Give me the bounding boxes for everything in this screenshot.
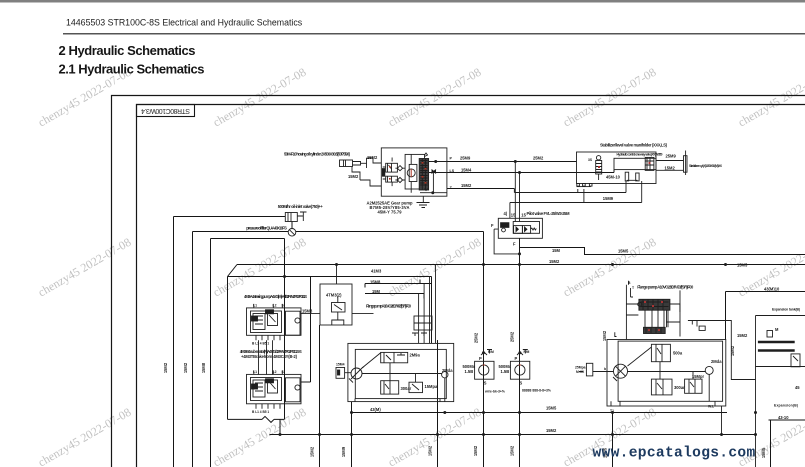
svg-text:b: b [604, 367, 606, 371]
svg-text:15M2: 15M2 [549, 259, 560, 264]
svg-text:45M-10: 45M-10 [606, 175, 621, 180]
svg-text:2M9a: 2M9a [410, 353, 421, 358]
svg-text:15M2: 15M2 [461, 183, 472, 188]
svg-text:L2: L2 [273, 303, 277, 307]
svg-text:50M-F10 hosing oil cylinder 2X: 50M-F10 hosing oil cylinder 2X500X30.5(5… [284, 152, 351, 157]
svg-text:F/M: F/M [524, 350, 530, 354]
svg-text:P: P [515, 356, 518, 361]
svg-text:15M2: 15M2 [730, 345, 735, 356]
svg-text:F/M: F/M [488, 350, 494, 354]
svg-text:15M2: 15M2 [665, 165, 676, 170]
svg-text:14465503 STR100C-8S Electrical: 14465503 STR100C-8S Electrical and Hydra… [66, 18, 303, 28]
svg-text:B L1 4 B5 1: B L1 4 B5 1 [252, 342, 269, 346]
svg-text:45: 45 [795, 385, 800, 390]
svg-text:15M4: 15M4 [336, 362, 345, 366]
svg-text:2.1 Hydraulic Schematics: 2.1 Hydraulic Schematics [59, 62, 205, 77]
svg-text:B L1 4 B5 1: B L1 4 B5 1 [252, 410, 269, 414]
svg-text:4TM3(2): 4TM3(2) [326, 293, 342, 298]
svg-text:S: S [484, 381, 487, 386]
svg-text:25Mpa: 25Mpa [575, 366, 586, 370]
svg-text:Flange pump A10VO28DR-53/(SR)F: Flange pump A10VO28DR-53/(SR)F00 [366, 303, 412, 308]
svg-text:STR80C100W3.4: STR80C100W3.4 [141, 107, 190, 114]
svg-text:wire-bk-3+%: wire-bk-3+% [484, 390, 505, 394]
svg-text:pressure oil filter QU-A40X10F: pressure oil filter QU-A40X10FS [246, 225, 287, 230]
svg-text:15M2: 15M2 [510, 445, 515, 456]
svg-text:L2: L2 [273, 370, 277, 374]
svg-text:T: T [632, 286, 635, 290]
svg-text:3S: 3S [588, 158, 593, 162]
svg-text:500a: 500a [673, 351, 683, 356]
svg-text:+4M3TBrakehorn 4M3C4Y(B-2): +4M3TBrakehorn 4M3C4Y(B-2) [241, 354, 298, 359]
svg-text:15M2: 15M2 [602, 330, 607, 341]
svg-text:Pilot valve FVL-25/W3-25M: Pilot valve FVL-25/W3-25M [527, 211, 571, 216]
svg-text:15M8: 15M8 [370, 280, 381, 285]
svg-text:S: S [520, 381, 523, 386]
svg-text:1.5B: 1.5B [501, 369, 510, 374]
svg-text:25M9: 25M9 [460, 156, 471, 161]
svg-text:15M5: 15M5 [737, 263, 748, 268]
svg-text:2Mda: 2Mda [711, 359, 722, 364]
svg-text:www.epcatalogs.com: www.epcatalogs.com [593, 446, 756, 462]
svg-text:P: P [450, 156, 453, 160]
svg-text:Stabilizer/level valve manifol: Stabilizer/level valve manifolder (XXX,L… [600, 143, 668, 148]
svg-text:15M2: 15M2 [310, 446, 315, 457]
svg-text:15M2: 15M2 [737, 333, 748, 338]
svg-text:15: 15 [511, 213, 516, 218]
svg-text:chenzy45 2022-07-08: chenzy45 2022-07-08 [386, 65, 484, 130]
svg-text:L1: L1 [253, 370, 257, 374]
svg-text:15M: 15M [552, 248, 561, 253]
svg-text:Expansion tank(B): Expansion tank(B) [772, 308, 800, 312]
svg-text:15M2: 15M2 [183, 362, 188, 373]
svg-text:chenzy45 2022-07-08: chenzy45 2022-07-08 [386, 405, 484, 467]
svg-text:chenzy45 2022-07-08: chenzy45 2022-07-08 [211, 65, 309, 130]
svg-text:15M2: 15M2 [367, 155, 378, 160]
svg-text:1.5B: 1.5B [465, 369, 474, 374]
svg-text:T1: T1 [610, 409, 614, 413]
svg-text:chenzy45 2022-07-08: chenzy45 2022-07-08 [561, 235, 659, 300]
svg-text:M.XX: M.XX [576, 370, 585, 374]
svg-text:25M2: 25M2 [510, 331, 515, 342]
svg-text:15M9: 15M9 [603, 196, 614, 201]
svg-text:500M/hr oil-inlet valve(750)++: 500M/hr oil-inlet valve(750)++ [278, 204, 324, 209]
svg-text:chenzy45 2022-07-08: chenzy45 2022-07-08 [736, 65, 805, 130]
svg-text:Stabilizer cyl.(X)150X30(M)XX: Stabilizer cyl.(X)150X30(M)XX [689, 164, 723, 168]
svg-text:15M2: 15M2 [473, 445, 478, 456]
svg-text:L1: L1 [253, 303, 257, 307]
svg-text:15Mpa: 15Mpa [425, 384, 438, 389]
svg-text:45M-Y 75.79: 45M-Y 75.79 [378, 210, 403, 215]
svg-text:300ar: 300ar [401, 386, 412, 391]
svg-text:43(M)10: 43(M)10 [764, 287, 780, 292]
svg-text:88888 888-8-8+3%: 88888 888-8-8+3% [522, 389, 551, 393]
svg-text:25M2: 25M2 [533, 156, 544, 161]
svg-text:43(M): 43(M) [370, 407, 381, 412]
svg-text:15M2: 15M2 [546, 428, 557, 433]
svg-text:15M8: 15M8 [201, 362, 206, 373]
svg-text:15M9: 15M9 [341, 446, 346, 457]
svg-text:2 Hydraulic Schematics: 2 Hydraulic Schematics [59, 43, 196, 58]
svg-text:25M2: 25M2 [474, 332, 479, 343]
svg-text:M: M [775, 327, 779, 332]
svg-text:2Mda: 2Mda [442, 368, 453, 373]
svg-text:25M9: 25M9 [666, 154, 677, 159]
svg-text:chenzy45 2022-07-08: chenzy45 2022-07-08 [386, 235, 484, 300]
svg-text:F: F [513, 242, 516, 247]
svg-text:15M4: 15M4 [461, 168, 472, 173]
svg-text:15M2: 15M2 [348, 174, 359, 179]
svg-text:15M2: 15M2 [163, 362, 168, 373]
svg-text:15M5: 15M5 [546, 406, 557, 411]
svg-text:15M5: 15M5 [618, 249, 629, 254]
svg-text:15M: 15M [372, 289, 381, 294]
svg-text:Expansion(B): Expansion(B) [774, 404, 798, 408]
svg-text:Flange pump A10VO28DR-53/(SR)F: Flange pump A10VO28DR-53/(SR)F00 [637, 284, 694, 289]
svg-text:F: F [491, 223, 494, 228]
svg-text:B: B [628, 281, 631, 285]
svg-text:LS: LS [450, 169, 455, 173]
svg-text:300ar: 300ar [674, 385, 685, 390]
svg-text:15M8: 15M8 [302, 309, 313, 314]
svg-text:chenzy45 2022-07-08: chenzy45 2022-07-08 [36, 405, 134, 467]
svg-text:chenzy45 2022-07-08: chenzy45 2022-07-08 [211, 405, 309, 467]
svg-text:W.L: W.L [708, 405, 714, 409]
svg-text:chenzy45 2022-07-08: chenzy45 2022-07-08 [36, 235, 134, 300]
svg-text:chenzy45 2022-07-08: chenzy45 2022-07-08 [211, 235, 309, 300]
svg-text:15M2: 15M2 [428, 445, 433, 456]
svg-text:41M3: 41M3 [371, 269, 382, 274]
svg-text:4): 4) [504, 211, 508, 216]
svg-text:43-10: 43-10 [778, 415, 789, 420]
svg-text:15M5: 15M5 [761, 447, 766, 458]
svg-text:15Mpr: 15Mpr [692, 374, 704, 379]
svg-text:Hydraulic control one-way valv: Hydraulic control one-way valve(XX)W350 [617, 153, 663, 157]
svg-text:chenzy45 2022-07-08: chenzy45 2022-07-08 [561, 65, 659, 130]
svg-text:4M3-A4 steering pump A4VG(M)-A: 4M3-A4 steering pump A4VG(M)-A4/32R-NZF0… [244, 294, 307, 299]
svg-text:P: P [479, 356, 482, 361]
